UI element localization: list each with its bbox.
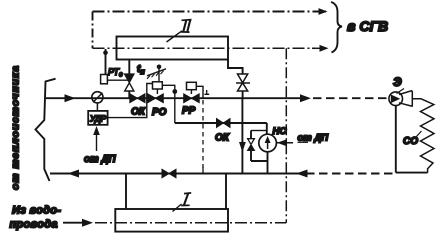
supply pipe dashed part to elevator (313, 97, 390, 99)
regulator РО box (153, 82, 163, 89)
cold water inlet arrow (63, 222, 88, 224)
heat exchanger I (115, 209, 228, 232)
main supply pipe (46, 97, 308, 99)
gate valve on return (filled) (162, 169, 169, 177)
valve РО (148, 94, 156, 103)
DHW riser dash-dot vertical (285, 48, 287, 222)
wire centerline arrow (312, 47, 327, 49)
wire top boundary dash-dot horizontal to СГВ (93, 11, 319, 13)
valve ОК (check, filled) (130, 94, 138, 103)
node impulse dot (172, 89, 177, 94)
return pipe (50, 173, 303, 175)
elevator Э (389, 92, 403, 106)
safety valve (238, 74, 248, 83)
meter УДР box (96, 103, 98, 111)
regulator PT box (101, 75, 108, 84)
wire pump suction from ДП (276, 142, 293, 144)
node dot on DHW line (103, 51, 108, 56)
wire РО box to РО valve stem (156, 89, 158, 94)
wire from II bottom to PT valve (128, 60, 130, 75)
return pipe dashed part (306, 173, 394, 175)
svg-text:РТс: РТс (108, 67, 123, 79)
bypass wire to pump branch (175, 122, 267, 124)
wire РР impulse dashed down to return (202, 100, 204, 168)
svg-text:от ДП: от ДП (84, 154, 116, 165)
wire return to I right (225, 174, 227, 210)
flow meter (92, 92, 103, 103)
valve PT (top filled, bottom open) (125, 74, 135, 83)
svg-text:tн: tн (137, 64, 145, 76)
svg-text:СО: СО (403, 136, 418, 147)
arrow от ДП to УДР (96, 131, 98, 151)
svg-text:РР: РР (182, 106, 196, 117)
temperature sensor tн (157, 65, 162, 70)
regulator РР box (187, 82, 197, 89)
wire cold water dash-dot through I (95, 222, 286, 224)
svg-text:ОК: ОК (215, 133, 230, 144)
svg-text:Э: Э (393, 75, 402, 89)
radiator СО zigzag (413, 99, 435, 173)
svg-text:ОК: ОК (131, 107, 146, 118)
brace to СГВ (331, 2, 342, 53)
wire down to PT regulator (105, 49, 107, 75)
svg-text:НС: НС (273, 126, 287, 137)
svg-text:от теплоисточника: от теплоисточника (10, 65, 22, 190)
svg-text:Из водо-: Из водо- (12, 205, 61, 217)
wire PT box to PT valve (107, 79, 129, 81)
pump branch down (266, 123, 268, 135)
wire УДР to РО regulator (108, 84, 153, 118)
wire СО bottom (396, 172, 428, 174)
mixing wire vertical with down arrow (241, 98, 243, 173)
wire centerline of II (DHW path) dash-dot (93, 47, 317, 49)
wire РР impulse (196, 86, 203, 98)
wire left boundary vertical dash-dot (92, 12, 94, 49)
svg-text:УДР: УДР (89, 115, 107, 124)
wire elevator down (395, 106, 397, 173)
wire return to I left (125, 174, 127, 210)
brace from heat source (36, 79, 56, 181)
heat exchanger II (117, 37, 229, 60)
check valve bypass around pump (251, 130, 267, 132)
wire step from II right bottom to safety valve (228, 60, 243, 75)
pipe tap mark (204, 90, 209, 94)
label I (173, 204, 182, 212)
valve РР (184, 94, 192, 103)
svg-text:РО: РО (152, 107, 167, 118)
svg-text:провода: провода (10, 219, 58, 231)
wire top boundary arrow (314, 11, 326, 13)
svg-text:в СГВ: в СГВ (347, 18, 388, 34)
pump НС (259, 134, 277, 152)
wire РО impulse to pipe junction (162, 85, 175, 123)
label II (167, 31, 183, 42)
valve ОК on bypass (filled) (217, 119, 224, 128)
